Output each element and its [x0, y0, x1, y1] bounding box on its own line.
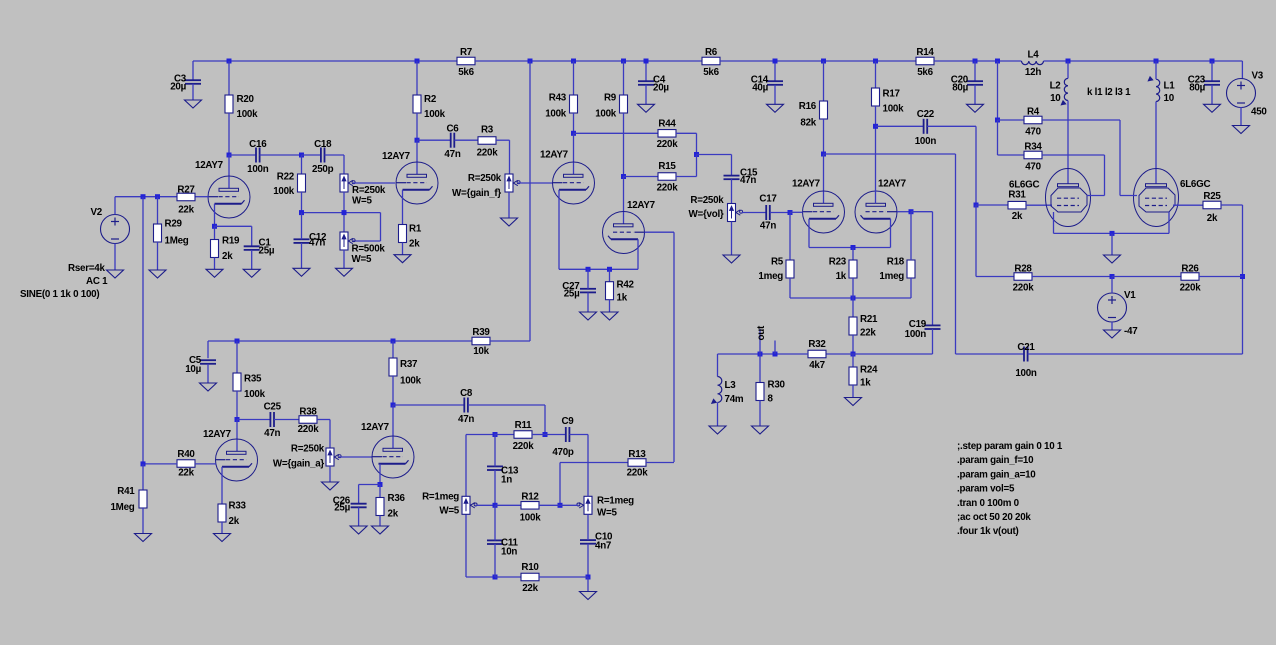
wire	[251, 226, 253, 246]
voltage source V1	[1098, 293, 1139, 337]
wire	[379, 485, 381, 498]
wire	[539, 576, 588, 578]
svg-text:2k: 2k	[409, 238, 420, 249]
svg-text:V3: V3	[1252, 71, 1264, 82]
svg-text:1n: 1n	[501, 475, 512, 486]
junction	[586, 267, 591, 272]
wire	[1087, 195, 1105, 197]
wire cathode T1	[214, 204, 216, 227]
svg-text:10: 10	[1164, 93, 1175, 104]
junction	[493, 503, 498, 508]
svg-text:out: out	[756, 325, 767, 340]
triode U4 12AY7	[603, 212, 645, 254]
svg-text:R5: R5	[771, 257, 784, 268]
wire	[587, 269, 589, 289]
junction	[974, 203, 979, 208]
svg-text:80µ: 80µ	[1189, 83, 1205, 94]
wire	[1240, 107, 1242, 126]
wire	[623, 113, 625, 177]
wire	[359, 484, 380, 486]
svg-text:100n: 100n	[1015, 368, 1037, 379]
resistor R41	[110, 486, 147, 513]
svg-text:47n: 47n	[309, 238, 325, 249]
wire anode T2	[416, 140, 418, 174]
svg-text:R21: R21	[860, 314, 878, 325]
wire	[569, 434, 588, 436]
wire	[416, 61, 418, 95]
resistor R23	[829, 257, 857, 283]
wire	[574, 132, 659, 134]
pentode U8 6L6GC	[1134, 169, 1179, 227]
svg-text:C22: C22	[917, 109, 935, 120]
svg-text:100n: 100n	[247, 164, 269, 175]
wire	[494, 470, 496, 505]
potentiometer P6	[422, 492, 477, 517]
capacitor C3	[170, 74, 201, 93]
svg-text:12h: 12h	[1025, 67, 1041, 78]
svg-text:10µ: 10µ	[185, 364, 201, 375]
wire	[697, 154, 732, 156]
svg-text:W=5: W=5	[439, 506, 459, 517]
svg-text:C21: C21	[1017, 342, 1035, 353]
junction	[694, 152, 699, 157]
svg-text:Rser=4k: Rser=4k	[68, 263, 105, 274]
wire	[759, 354, 761, 383]
wire	[997, 120, 999, 155]
wire	[466, 434, 495, 436]
wire	[976, 204, 1008, 206]
ground	[214, 534, 231, 542]
wire	[997, 61, 999, 120]
wire	[759, 401, 761, 427]
wire cathode T3	[558, 190, 560, 269]
ground	[601, 312, 618, 320]
svg-text:C6: C6	[446, 124, 459, 135]
ground	[723, 255, 740, 263]
ground	[336, 268, 353, 276]
wire	[251, 250, 253, 269]
wire	[494, 434, 496, 467]
wire wiper P1	[353, 182, 395, 184]
svg-text:80µ: 80µ	[952, 83, 968, 94]
capacitor C26	[333, 496, 367, 514]
wire	[770, 212, 790, 214]
capacitor C20	[951, 75, 983, 94]
svg-text:R19: R19	[222, 236, 240, 247]
svg-text:12AY7: 12AY7	[195, 160, 224, 171]
svg-text:20µ: 20µ	[653, 83, 669, 94]
wire	[343, 250, 345, 268]
resistor R24	[849, 365, 878, 389]
wire	[215, 225, 252, 227]
resistor R19	[211, 236, 241, 263]
resistor R14	[916, 47, 934, 78]
wire	[1044, 60, 1243, 62]
wire cathode T5	[808, 219, 810, 248]
junction	[1110, 274, 1115, 279]
potentiometer P1	[340, 174, 386, 207]
junction	[773, 59, 778, 64]
resistor R5	[758, 257, 794, 283]
svg-text:R25: R25	[1203, 191, 1221, 202]
junction	[415, 138, 420, 143]
svg-text:47n: 47n	[458, 414, 474, 425]
wire	[774, 85, 776, 105]
svg-text:R32: R32	[808, 339, 826, 350]
svg-text:R=250k: R=250k	[468, 173, 502, 184]
wire	[343, 192, 345, 213]
svg-text:R=1meg: R=1meg	[597, 496, 634, 507]
wire anode T4	[623, 177, 625, 224]
wire	[237, 419, 270, 421]
resistor R2	[413, 94, 446, 120]
wire	[228, 61, 230, 95]
capacitor C21	[1015, 342, 1037, 379]
junction	[493, 432, 498, 437]
junction	[1240, 274, 1245, 279]
svg-text:22k: 22k	[522, 583, 538, 594]
svg-text:10: 10	[1050, 93, 1061, 104]
wire	[1221, 204, 1243, 206]
resistor R7	[457, 47, 475, 78]
ground	[580, 592, 597, 600]
junction	[758, 352, 763, 357]
svg-text:R24: R24	[860, 365, 878, 376]
resistor R9	[595, 93, 627, 120]
wire	[731, 179, 733, 203]
capacitor C5	[185, 355, 216, 375]
svg-text:R27: R27	[177, 185, 195, 196]
wire	[115, 196, 177, 198]
wire	[142, 464, 144, 490]
wire	[1111, 277, 1113, 294]
ground	[967, 104, 984, 112]
junction	[227, 153, 232, 158]
wire	[302, 154, 321, 156]
wire anode T5	[823, 154, 825, 203]
ground	[206, 269, 223, 277]
wire	[214, 226, 216, 239]
svg-text:1k: 1k	[860, 378, 871, 389]
wire	[587, 514, 589, 540]
wire cathode T9	[221, 467, 223, 504]
junction	[1110, 231, 1115, 236]
capacitor C8	[458, 388, 474, 425]
junction	[851, 296, 856, 301]
junction	[415, 59, 420, 64]
svg-text:22k: 22k	[860, 328, 876, 339]
wire	[609, 300, 611, 312]
svg-text:100k: 100k	[400, 376, 422, 387]
svg-text:R38: R38	[299, 407, 317, 418]
wire	[587, 292, 589, 312]
junction	[299, 153, 304, 158]
wire	[142, 508, 144, 534]
wire	[956, 353, 1025, 355]
wire	[852, 278, 854, 298]
svg-text:74m: 74m	[725, 394, 744, 405]
capacitor C6	[444, 124, 460, 161]
svg-text:R1: R1	[409, 224, 422, 235]
svg-text:R43: R43	[549, 93, 567, 104]
svg-text:220k: 220k	[513, 441, 535, 452]
ground	[200, 383, 217, 391]
wire	[1241, 61, 1243, 79]
svg-text:12AY7: 12AY7	[382, 151, 411, 162]
junction	[607, 267, 612, 272]
wire cathode T4	[637, 239, 639, 269]
wire	[392, 376, 394, 405]
resistor R22	[273, 172, 305, 198]
resistor R42	[606, 280, 635, 304]
svg-text:47n: 47n	[760, 221, 776, 232]
wire	[932, 329, 934, 354]
wire	[195, 463, 216, 465]
svg-text:40µ: 40µ	[752, 83, 768, 94]
junction	[773, 352, 778, 357]
svg-text:R6: R6	[705, 47, 718, 58]
wire	[529, 61, 531, 341]
junction	[909, 209, 914, 214]
svg-text:R29: R29	[165, 219, 183, 230]
resistor R39	[472, 327, 490, 357]
svg-text:12AY7: 12AY7	[361, 422, 390, 433]
wire	[676, 132, 697, 134]
svg-text:R34: R34	[1024, 142, 1042, 153]
wire	[393, 404, 464, 406]
svg-text:220k: 220k	[1180, 283, 1202, 294]
text simulation directives	[957, 441, 1063, 537]
node out	[756, 325, 775, 354]
junction	[141, 194, 146, 199]
svg-text:R42: R42	[617, 280, 635, 291]
svg-text:R15: R15	[658, 161, 676, 172]
resistor R25	[1203, 191, 1221, 224]
svg-text:.tran 0 100m 0: .tran 0 100m 0	[957, 498, 1020, 509]
svg-text:25µ: 25µ	[564, 289, 580, 300]
wire	[720, 60, 916, 62]
resistor R18	[879, 257, 915, 283]
wire	[417, 60, 457, 62]
triode U10 12AY7	[372, 436, 414, 478]
svg-text:R4: R4	[1027, 107, 1040, 118]
wire anode T9	[236, 420, 238, 452]
ground	[149, 270, 166, 278]
capacitor C17	[759, 194, 777, 232]
junction	[851, 245, 856, 250]
wire	[274, 419, 299, 421]
wire	[228, 113, 230, 155]
svg-text:R44: R44	[658, 119, 676, 130]
capacitor C14	[751, 75, 783, 94]
junction	[873, 59, 878, 64]
ground	[394, 255, 411, 263]
junction	[788, 210, 793, 215]
svg-text:R41: R41	[117, 486, 135, 497]
svg-text:100k: 100k	[595, 108, 617, 119]
svg-text:R30: R30	[768, 380, 786, 391]
svg-text:2k: 2k	[388, 509, 399, 520]
svg-text:450: 450	[1251, 107, 1267, 118]
svg-text:100k: 100k	[883, 104, 905, 115]
wire cathode T10	[379, 464, 381, 485]
junction	[391, 403, 396, 408]
svg-text:R=500k: R=500k	[352, 244, 386, 255]
svg-text:R3: R3	[481, 125, 494, 136]
triode U6 12AY7	[855, 191, 897, 233]
capacitor C4	[638, 75, 669, 94]
resistor R3	[477, 125, 499, 159]
svg-text:250p: 250p	[312, 164, 334, 175]
svg-text:1meg: 1meg	[879, 271, 904, 282]
junction	[141, 461, 146, 466]
resistor R26	[1180, 264, 1202, 294]
wire	[302, 212, 381, 214]
svg-text:R20: R20	[237, 94, 255, 105]
wire	[587, 463, 589, 497]
wire	[192, 84, 194, 100]
wire	[731, 222, 733, 256]
wire	[114, 197, 116, 215]
capacitor C18	[312, 139, 334, 175]
svg-text:100n: 100n	[915, 136, 937, 147]
wire	[587, 435, 589, 463]
resistor R34	[1024, 142, 1042, 173]
junction	[212, 224, 217, 229]
wire	[1111, 322, 1113, 330]
resistor R15	[657, 161, 679, 194]
resistor R21	[849, 314, 878, 339]
svg-text:;ac oct 50 20 20k: ;ac oct 50 20 20k	[957, 512, 1031, 523]
junction	[1210, 59, 1215, 64]
wire	[317, 419, 330, 421]
wire	[852, 385, 854, 398]
ground	[322, 482, 339, 490]
junction	[851, 352, 856, 357]
wire	[509, 140, 511, 174]
svg-text:R12: R12	[521, 492, 539, 503]
wire	[465, 435, 467, 578]
wire anode T3	[573, 133, 575, 174]
svg-text:R2: R2	[424, 94, 437, 105]
junction	[644, 59, 649, 64]
svg-text:L1: L1	[1164, 81, 1176, 92]
wire	[809, 247, 891, 249]
svg-text:R36: R36	[388, 493, 406, 504]
junction	[571, 131, 576, 136]
wire	[214, 258, 216, 270]
wire	[718, 353, 776, 355]
pentode U7 6L6GC	[1009, 169, 1091, 227]
svg-text:12AY7: 12AY7	[203, 429, 232, 440]
svg-text:100k: 100k	[244, 389, 266, 400]
svg-text:W=5: W=5	[352, 196, 372, 207]
wire	[157, 197, 159, 224]
wire	[645, 85, 647, 105]
wire	[329, 466, 331, 482]
svg-text:R23: R23	[829, 257, 847, 268]
wire	[157, 242, 159, 270]
wire	[587, 577, 589, 592]
wire	[494, 544, 496, 577]
junction	[235, 417, 240, 422]
wire	[1112, 276, 1181, 278]
wire	[192, 61, 194, 80]
wire	[696, 133, 698, 154]
voltage source V2	[20, 215, 130, 301]
wire	[301, 155, 303, 174]
svg-text:220k: 220k	[298, 424, 320, 435]
svg-text:8: 8	[768, 394, 774, 405]
capacitor C15	[724, 168, 759, 187]
wire	[717, 354, 719, 377]
wire wiper P6	[476, 504, 496, 506]
svg-text:220k: 220k	[627, 468, 649, 479]
svg-text:100k: 100k	[545, 108, 567, 119]
wire	[1120, 195, 1137, 197]
potentiometer P4	[689, 195, 743, 222]
wire cathode T8	[1168, 212, 1170, 233]
inductor L4	[1022, 50, 1044, 79]
svg-text:4k7: 4k7	[809, 360, 825, 371]
svg-text:L4: L4	[1028, 50, 1040, 61]
wire	[468, 404, 545, 406]
wire	[876, 125, 924, 127]
wire	[852, 298, 854, 317]
svg-text:W={gain_f}: W={gain_f}	[452, 188, 501, 199]
wire	[1211, 61, 1213, 81]
wire	[301, 213, 303, 240]
svg-text:R10: R10	[521, 562, 539, 573]
svg-text:1Meg: 1Meg	[165, 236, 189, 247]
svg-text:2k: 2k	[222, 251, 233, 262]
svg-text:100k: 100k	[237, 109, 259, 120]
wire	[1119, 120, 1121, 196]
wire	[114, 244, 116, 271]
wire	[207, 364, 209, 383]
svg-text:C25: C25	[264, 402, 282, 413]
ground	[243, 269, 260, 277]
svg-text:;.step param gain 0 10 1: ;.step param gain 0 10 1	[957, 441, 1063, 452]
svg-text:2k: 2k	[1207, 213, 1218, 224]
wire grid T6	[897, 211, 911, 213]
triode U2 12AY7	[382, 151, 438, 204]
junction	[528, 59, 533, 64]
svg-text:12AY7: 12AY7	[627, 200, 656, 211]
wire	[455, 139, 479, 141]
wire	[343, 213, 345, 232]
svg-text:1k: 1k	[617, 293, 628, 304]
wire	[927, 125, 976, 127]
wire	[955, 154, 957, 354]
ground	[107, 270, 124, 278]
wire	[852, 335, 854, 354]
wire	[573, 61, 575, 95]
svg-text:20µ: 20µ	[170, 82, 186, 93]
svg-text:1meg: 1meg	[758, 271, 783, 282]
wire	[853, 353, 933, 355]
svg-text:2k: 2k	[229, 516, 240, 527]
wire	[1028, 353, 1243, 355]
resistor R6	[702, 47, 720, 78]
wire	[934, 60, 1022, 62]
junction	[821, 59, 826, 64]
svg-text:25µ: 25µ	[334, 503, 350, 514]
svg-text:22k: 22k	[178, 205, 194, 216]
junction	[621, 174, 626, 179]
wire	[379, 516, 381, 527]
wire	[559, 268, 638, 270]
